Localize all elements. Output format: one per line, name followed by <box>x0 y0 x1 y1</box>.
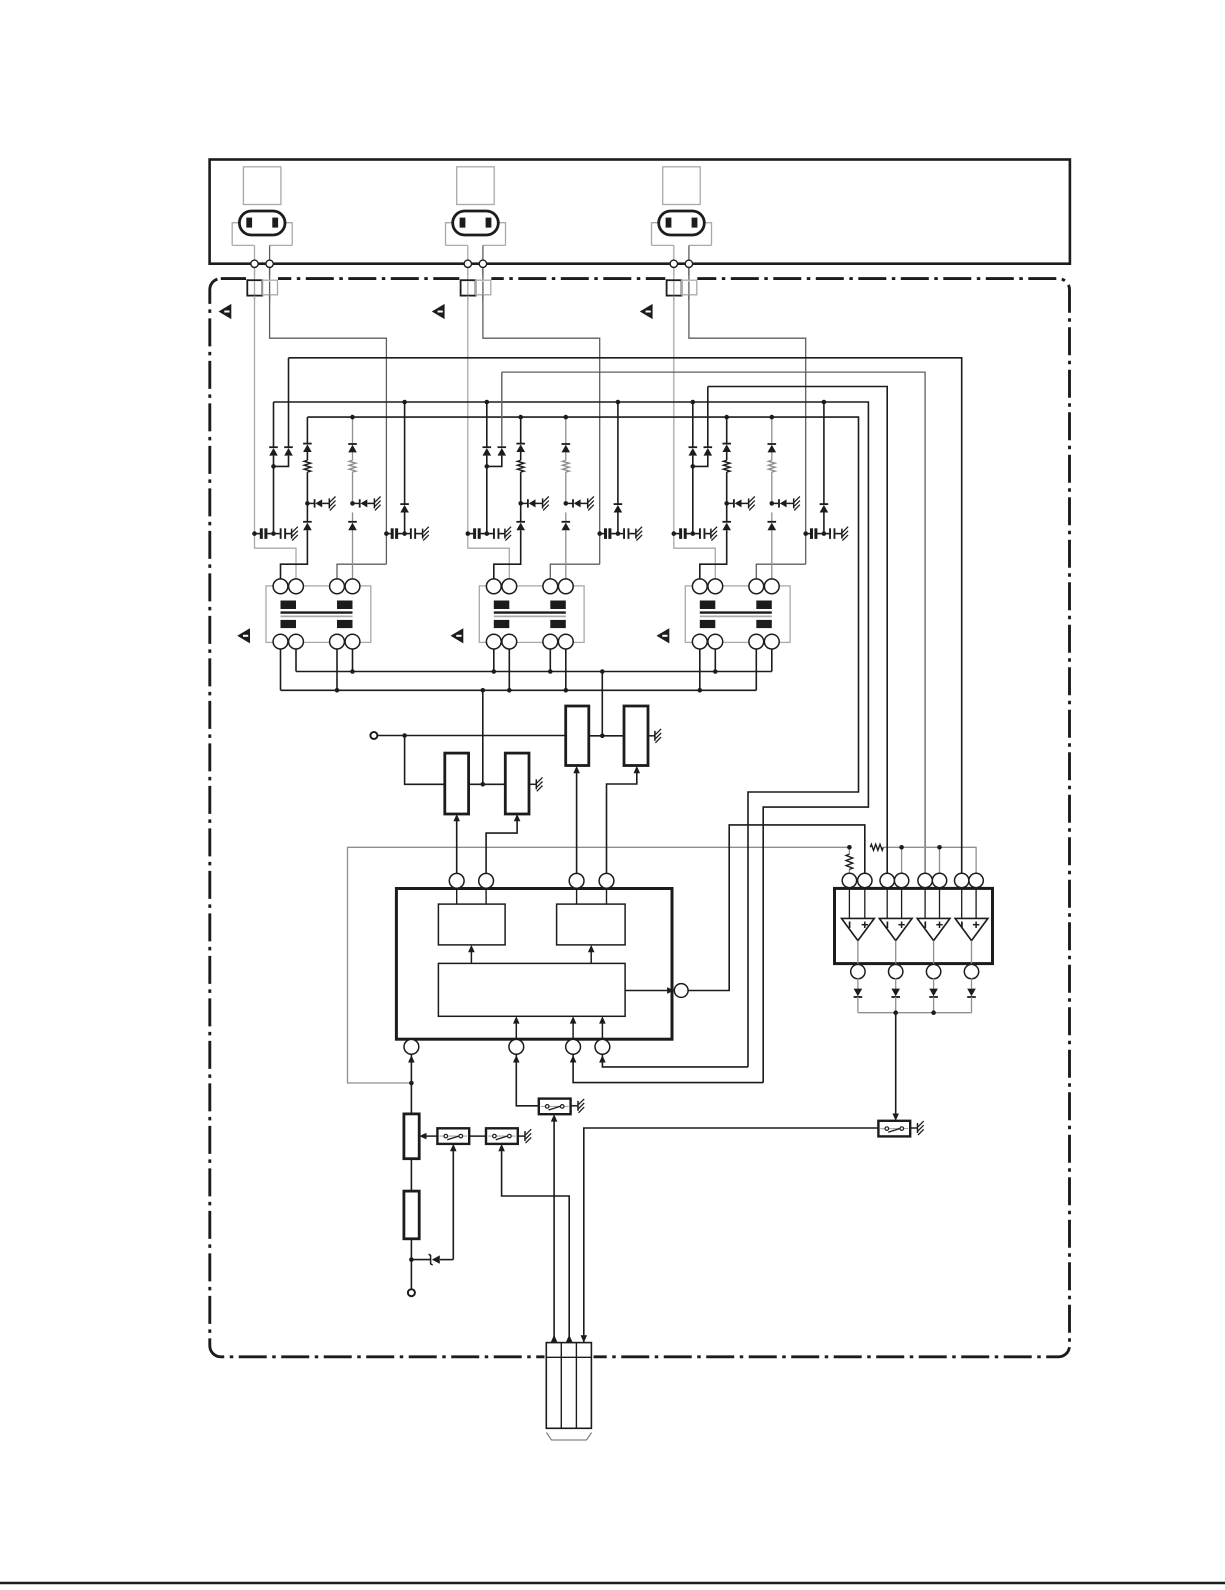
pin circle U1 out <box>674 984 688 998</box>
AC outlet 1 slots <box>246 218 252 228</box>
net bus DC+ <box>274 402 869 1083</box>
wire R1-R2 node <box>589 735 624 737</box>
wire R1 wiper <box>576 769 578 874</box>
wire U1 output arrow <box>625 990 673 992</box>
transformer T2 pin6 <box>502 634 517 649</box>
switch S4 <box>878 1121 910 1137</box>
wire surge branch B3 <box>771 417 773 444</box>
wire surge branch B2 <box>565 417 567 444</box>
resistor branch B1 <box>349 460 356 472</box>
wire outlet 3 neutral to transformer pin3 <box>756 564 805 579</box>
transformer T2 pin5 <box>486 634 501 649</box>
diode D out4 <box>971 978 973 989</box>
wire T2 p6 <box>508 649 510 690</box>
resistor block R2 <box>624 706 648 766</box>
resistor block R3 <box>445 753 469 814</box>
transformer T2 pin1 <box>486 579 501 594</box>
diode D1c <box>404 402 406 504</box>
net bus DC2+ <box>307 417 858 1067</box>
wire S2 select <box>502 1146 570 1338</box>
resistor R5 (rail series) <box>870 844 883 850</box>
wire outlet 2 neutral to transformer pin3 <box>550 564 599 579</box>
wire R4 wiper <box>486 817 517 874</box>
net bus N2 (gray) <box>502 372 925 874</box>
AC outlet 3 label square <box>663 167 701 205</box>
wire U1 internal arrow 2 <box>590 947 592 963</box>
AC outlet 3 socket <box>659 211 705 235</box>
diode D2b <box>501 372 503 447</box>
wire rail to in3+ <box>939 847 941 874</box>
wire U1 bottom internal <box>515 1019 517 1040</box>
net secondary bus S2 <box>281 689 757 691</box>
AC outlet 1 label square <box>243 167 281 205</box>
wire R4 to chassis <box>529 783 536 785</box>
diode branch B2 bottom <box>562 521 571 523</box>
pin circle U1-c <box>569 873 584 888</box>
wire outlet 1 neutral route <box>270 267 387 564</box>
pin circle U1-f <box>509 1039 524 1054</box>
diode branch B1 top <box>348 443 357 445</box>
wire outlet 1 R lead <box>269 245 271 260</box>
diode branch A2 top <box>520 417 522 444</box>
wire outlet 2 live to transformer pin2 <box>468 534 510 579</box>
diode D2c <box>617 402 619 504</box>
diode branch B2 top <box>562 443 571 445</box>
diode branch A1 top <box>306 417 308 444</box>
wire U1 pin-e to voltage set <box>410 1054 412 1114</box>
safety marker 3 <box>640 304 653 319</box>
resistor branch A2 <box>517 460 524 472</box>
pin circle U1-b <box>479 873 494 888</box>
diode D out1 <box>857 978 859 989</box>
capacitor group X3a/Y3a <box>674 533 679 535</box>
resistor block R1 <box>566 706 589 766</box>
wire R3 wiper <box>456 817 458 874</box>
zener Z1a to chassis <box>305 501 310 506</box>
diode D3c <box>823 402 825 504</box>
wire U1 pin-g feedback <box>573 1054 763 1082</box>
AC outlet 2 slots <box>460 218 466 228</box>
wire outlet 3 L lead <box>673 245 675 260</box>
transformer T2 pin4 <box>558 579 573 594</box>
switch S2 <box>486 1128 518 1144</box>
transformer T1 pin6 <box>289 634 304 649</box>
wire S4 to connector <box>584 1128 879 1343</box>
wire pair junction 2 <box>486 466 488 533</box>
wire S2 drop to lower divider <box>482 690 484 784</box>
zener Z3a to chassis <box>724 501 729 506</box>
transformer T3 pin5 <box>692 634 707 649</box>
diode D2a <box>486 402 488 447</box>
main board dash-dot border <box>210 279 1070 1357</box>
wire R7-R8 <box>410 1159 412 1191</box>
wire branch A1 to transformer pin1 <box>281 530 308 579</box>
wire branch B1 to transformer pin4 <box>352 530 354 579</box>
diode branch A1 bottom <box>303 521 312 523</box>
diode branch A2 bottom <box>516 521 525 523</box>
transformer T1 pin7 <box>330 634 345 649</box>
transformer T2 pin3 <box>543 579 558 594</box>
transformer T3 pin1 <box>692 579 707 594</box>
net bus N1 <box>289 358 962 875</box>
pin circle U2 in3+ <box>932 873 946 887</box>
wire R2 to chassis <box>648 735 655 737</box>
wire surge branch B1 <box>352 417 354 444</box>
connector CN1 bracket <box>547 1433 592 1441</box>
diode branch A3 bottom <box>722 521 731 523</box>
wire outlet 3 live to transformer pin2 <box>674 534 716 579</box>
AC outlet 1 socket <box>239 211 285 235</box>
transformer T1 pin1 <box>273 579 288 594</box>
wire U1 internal arrow 1 <box>470 947 472 963</box>
transformer T3 core <box>700 611 772 613</box>
switch S3 <box>539 1099 571 1115</box>
op-amp U2b <box>886 887 888 919</box>
wire T1 p7 <box>336 649 338 690</box>
terminal outlet 3 R <box>685 260 692 267</box>
AC outlet 2 label square <box>457 167 495 205</box>
wire S1 select with zener Z7 <box>452 1146 454 1259</box>
wire outlet 1 live drop <box>254 267 256 533</box>
wire outlet 1 live to transformer pin2 <box>255 534 297 579</box>
resistor branch B3 <box>769 460 776 472</box>
op-amp U2c <box>924 887 926 919</box>
wire T1 p8 <box>352 649 354 672</box>
wire T3 p6 <box>714 649 716 672</box>
wire outlet 3 neutral route <box>689 267 806 564</box>
wire outlet 3 live drop <box>673 267 675 533</box>
diode D3b <box>707 387 709 448</box>
pin circle U2 out2 <box>889 964 903 978</box>
diode branch B3 bottom <box>768 521 777 523</box>
terminal outlet 2 R <box>479 260 486 267</box>
terminal outlet 1 R <box>266 260 273 267</box>
pin circle U1-e <box>404 1039 419 1054</box>
pin circle U2 out1 <box>851 964 865 978</box>
net secondary bus S1 <box>296 671 772 673</box>
wire outlet 2 live drop <box>467 267 469 533</box>
pin circle U1-d <box>599 873 614 888</box>
wire outlet 1 L lead <box>254 245 256 260</box>
AC outlet 2 mounting bracket <box>446 223 506 246</box>
wire outlet 2 neutral route <box>483 267 600 564</box>
transformer T1 pin3 <box>330 579 345 594</box>
op-amp feedback route <box>687 825 864 991</box>
net comparator output bus <box>858 1012 972 1014</box>
diode branch B1 bottom <box>348 521 357 523</box>
safety marker 6 <box>657 628 670 643</box>
AC outlet 3 slots <box>666 218 672 228</box>
connector outlet 1 L <box>247 280 262 295</box>
wire U1 pin-f to switch S3 <box>516 1054 539 1106</box>
transformer T2 core <box>494 611 566 613</box>
pin circle U2 out3 <box>926 964 940 978</box>
resistor branch A3 <box>723 460 730 472</box>
connector CN1 <box>546 1343 591 1429</box>
wire branch B2 to transformer pin4 <box>565 530 567 579</box>
wire S3 select <box>553 1117 555 1338</box>
safety marker 2 <box>432 304 445 319</box>
pin circle U2 in4+ <box>969 873 983 887</box>
net reference rail (gray) <box>348 847 850 1083</box>
wire branch A2 to transformer pin1 <box>494 530 521 579</box>
wire output bus to switch S4 <box>895 1013 897 1119</box>
terminal outlet 1 L <box>251 260 258 267</box>
wire outlet 2 R lead <box>482 245 484 260</box>
wire T1 p6 <box>295 649 297 672</box>
wire U2c output <box>933 941 935 966</box>
diode branch B3 top <box>768 443 777 445</box>
resistor R6 (rail to in1-) <box>846 854 853 869</box>
zener Z2b to chassis <box>564 501 569 506</box>
zener Z3b to chassis <box>770 501 775 506</box>
page footer rule <box>0 1582 1225 1584</box>
transformer T3 pin7 <box>749 634 764 649</box>
pin circle U2 in1+ <box>858 873 872 887</box>
transformer T2 pin7 <box>543 634 558 649</box>
net bus N3 <box>708 387 887 875</box>
capacitor group X2a/Y2a <box>468 533 473 535</box>
transformer T2 pin8 <box>558 634 573 649</box>
terminal adjust <box>408 1289 415 1296</box>
diode D out3 <box>933 978 935 989</box>
wire T3 p5 <box>699 649 701 690</box>
transformer T1 pin8 <box>345 634 360 649</box>
wire input node drop <box>405 736 445 785</box>
pin circle U2 in3- <box>918 873 932 887</box>
zener Z2a to chassis <box>518 501 523 506</box>
transformer T1 <box>266 586 371 643</box>
AC outlet 3 mounting bracket <box>652 223 712 246</box>
wire U2b output <box>895 941 897 966</box>
wire U1 pin-h feedback <box>602 1054 748 1067</box>
AC outlet 2 socket <box>453 211 499 235</box>
safety marker 5 <box>451 628 464 643</box>
IC U1 sub-block 2 <box>576 888 578 904</box>
connector outlet 2 L <box>461 280 476 295</box>
transformer T1 pin4 <box>345 579 360 594</box>
pin circle U2 out4 <box>964 964 978 978</box>
wire T2 p8 <box>565 649 567 690</box>
wire pair junction 1 <box>273 466 275 533</box>
resistor block R8 <box>404 1191 419 1239</box>
transformer T3 pin8 <box>764 634 779 649</box>
wire R2 wiper <box>607 769 637 874</box>
wire branch B3 to transformer pin4 <box>771 530 773 579</box>
wire input node to resistors <box>377 735 565 737</box>
transformer T3 pin4 <box>764 579 779 594</box>
pin circle U2 in2- <box>880 873 894 887</box>
IC U1 regulator control <box>396 889 672 1040</box>
safety marker 1 <box>219 304 232 319</box>
resistor block R4 <box>505 753 529 814</box>
wire U1 bottom internal <box>572 1019 574 1040</box>
diode D1a <box>273 402 275 447</box>
transformer T2 pin2 <box>502 579 517 594</box>
zener Z7 <box>432 1255 440 1263</box>
patch CN outlet 2 <box>459 276 491 282</box>
wire U2d output <box>971 941 973 966</box>
patch CN outlet 1 <box>246 276 278 282</box>
wire T3 p8 <box>771 649 773 672</box>
switch S1-S2 link <box>469 1135 486 1137</box>
comparator block U2 <box>835 888 993 963</box>
connector outlet 3 R <box>682 280 697 295</box>
wire pair junction 3 <box>692 466 694 533</box>
AC outlet 1 mounting bracket <box>232 223 292 246</box>
pin circle U1-h <box>595 1039 610 1054</box>
wire outlet 3 R lead <box>688 245 690 260</box>
transformer T1 pin2 <box>289 579 304 594</box>
wire outlet 2 L lead <box>467 245 469 260</box>
zener Z1b to chassis <box>350 501 355 506</box>
diode D out2 <box>895 978 897 989</box>
AC outlet panel box <box>210 160 1070 264</box>
diode branch A3 top <box>726 417 728 444</box>
transformer T3 pin3 <box>749 579 764 594</box>
capacitor group X2b/Y2b <box>600 533 604 535</box>
wire T1 p5 <box>280 649 282 690</box>
capacitor group X3b/Y3b <box>806 533 810 535</box>
wire branch A3 to transformer pin1 <box>700 530 727 579</box>
IC U1 sub-block 3 <box>438 963 625 1016</box>
terminal outlet 3 L <box>670 260 677 267</box>
wire T3 p7 <box>755 649 757 690</box>
wire T2 p5 <box>493 649 495 672</box>
wire rail to in2+ <box>901 847 903 874</box>
safety marker 4 <box>237 628 250 643</box>
transformer T3 pin6 <box>708 634 723 649</box>
terminal outlet 2 L <box>464 260 471 267</box>
wire S4 to chassis <box>910 1127 917 1129</box>
terminal input node <box>370 732 377 739</box>
pin circle U2 in4- <box>955 873 969 887</box>
connector outlet 2 R <box>476 280 491 295</box>
pin circle U2 in1- <box>842 873 856 887</box>
pin circle U2 in2+ <box>894 873 908 887</box>
transformer T1 core <box>281 611 353 613</box>
IC U1 sub-block 1 <box>456 888 458 904</box>
op-amp U2d <box>961 887 963 919</box>
capacitor group X1a/Y1a <box>255 533 260 535</box>
switch S1 <box>422 1135 438 1137</box>
white patch under connector CN1 <box>545 1351 594 1362</box>
pin circle U1-g <box>566 1039 581 1054</box>
wire S3 to chassis <box>571 1105 578 1107</box>
transformer T1 pin5 <box>273 634 288 649</box>
transformer T3 pin2 <box>708 579 723 594</box>
wire R8 to terminal <box>410 1239 412 1289</box>
diode D3a <box>692 402 694 447</box>
pin circle U1-a <box>449 873 464 888</box>
wire outlet 1 neutral to transformer pin3 <box>337 564 386 579</box>
capacitor group X1b/Y1b <box>386 533 390 535</box>
connector outlet 3 L <box>667 280 682 295</box>
wire S1 drop to divider <box>601 672 603 736</box>
resistor block R7 <box>404 1114 419 1159</box>
patch CN outlet 3 <box>665 276 697 282</box>
op-amp U2a <box>848 887 850 919</box>
resistor branch A1 <box>304 460 311 472</box>
wire R3-R4 node <box>469 783 506 785</box>
connector outlet 1 R <box>262 280 277 295</box>
wire T2 p7 <box>549 649 551 672</box>
transformer T3 <box>685 586 790 643</box>
transformer T2 <box>479 586 584 643</box>
wire U2a output <box>857 941 859 966</box>
diode D1b <box>288 358 290 447</box>
resistor branch B2 <box>563 460 570 472</box>
wire S2 to chassis <box>518 1135 525 1137</box>
wire U1 bottom internal <box>601 1019 603 1040</box>
